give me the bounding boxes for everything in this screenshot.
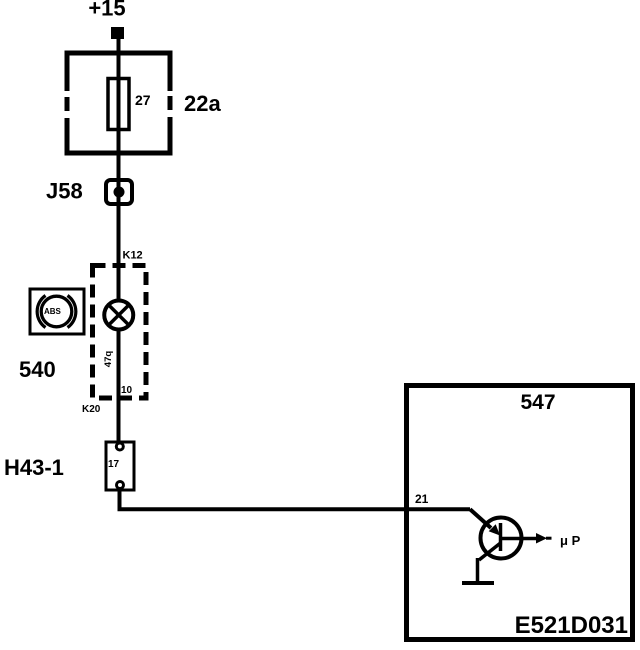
svg-text:ABS: ABS	[44, 307, 62, 316]
output arrow to microprocessor	[536, 533, 581, 548]
wire H43-1 down and right to control unit	[120, 490, 471, 509]
svg-text:E521D031: E521D031	[515, 612, 628, 639]
svg-text:μ P: μ P	[560, 533, 581, 548]
connector H43-1	[106, 442, 134, 491]
svg-text:540: 540	[19, 357, 56, 382]
svg-text:547: 547	[520, 391, 555, 414]
svg-text:21: 21	[415, 492, 429, 506]
svg-text:10: 10	[121, 385, 133, 396]
lamp unit box (dashed)	[93, 266, 147, 399]
fuse 27	[108, 79, 129, 130]
svg-text:J58: J58	[46, 179, 83, 204]
lamp (ABS warning lamp)	[104, 301, 133, 330]
svg-text:K12: K12	[123, 250, 143, 262]
connector J58	[106, 180, 132, 204]
svg-text:K20: K20	[82, 404, 101, 415]
transistor (in control unit)	[479, 518, 537, 561]
wire from +15 terminal down through fuse and J58 to lamp	[117, 39, 121, 300]
ground	[462, 558, 494, 583]
svg-text:22a: 22a	[184, 91, 221, 116]
svg-text:+15: +15	[88, 0, 125, 21]
svg-text:27: 27	[135, 92, 151, 108]
ABS indicator icon	[30, 289, 84, 334]
svg-text:H43-1: H43-1	[4, 455, 64, 480]
fuse box 22a	[62, 53, 174, 153]
terminal +15	[111, 27, 124, 39]
svg-text:17: 17	[108, 459, 120, 470]
wire lamp to H43-1	[117, 329, 121, 443]
wire diagonal into transistor base	[470, 509, 500, 535]
svg-text:47q: 47q	[103, 351, 114, 368]
control unit box 547	[407, 386, 633, 640]
